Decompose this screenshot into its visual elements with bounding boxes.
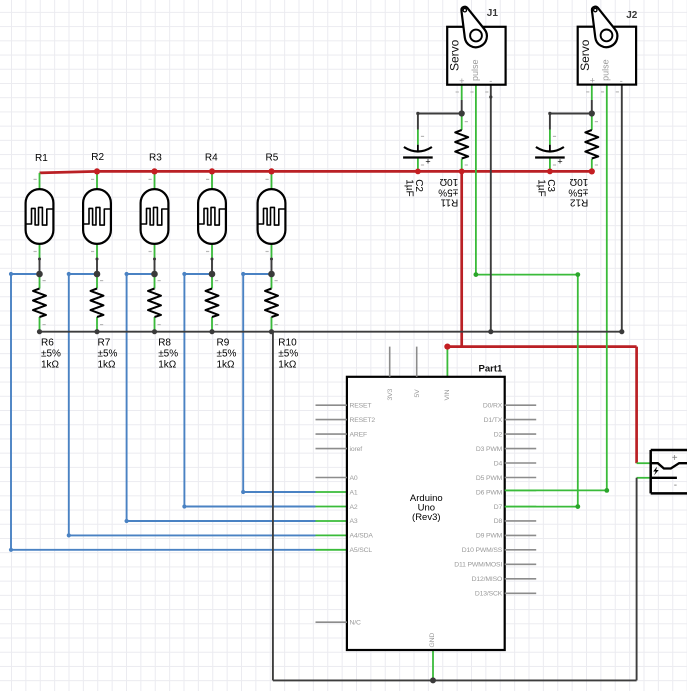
svg-text:VIN: VIN: [444, 389, 451, 400]
wire: red horizontal to battery column: [447, 345, 636, 348]
wire: red drop to battery plus: [635, 347, 638, 464]
capacitor C2: [403, 145, 433, 167]
resistor R6: [33, 289, 46, 318]
svg-text:A4/SDA: A4/SDA: [350, 533, 374, 540]
svg-text:AREF: AREF: [350, 431, 368, 438]
svg-text:R3: R3: [149, 153, 162, 164]
svg-text:R10±5%1kΩ: R10±5%1kΩ: [278, 338, 298, 371]
svg-text:D1/TX: D1/TX: [484, 417, 503, 424]
wire: green stubs resistor R7: [96, 274, 98, 332]
svg-text:R8±5%1kΩ: R8±5%1kΩ: [158, 338, 178, 371]
svg-text:D0/RX: D0/RX: [483, 403, 503, 410]
wire: C2 top stub: [417, 130, 419, 145]
wire: ground bus under resistors: [40, 331, 622, 333]
node red bus junctions: [94, 168, 595, 349]
svg-text:RESET2: RESET2: [350, 417, 376, 424]
wire: blue from R9 node to pin A2: [184, 274, 315, 507]
wire: servo J2 minus down to ground bus: [621, 85, 623, 332]
wire: black link LDR R5 to resistor R10: [271, 259, 273, 274]
wire: green stubs resistor R8: [154, 274, 156, 332]
svg-text:R5: R5: [266, 153, 279, 164]
svg-text:R6±5%1kΩ: R6±5%1kΩ: [41, 338, 61, 371]
svg-text:D6 PWM: D6 PWM: [476, 489, 503, 496]
svg-text:D9 PWM: D9 PWM: [476, 533, 503, 540]
wire: R12 bottom to red bus: [591, 159, 593, 172]
wire: red V+ bus along photoresistor tops R1..R5 to C2,R11,C3,R12: [40, 171, 637, 463]
wire: green stub R4 top: [211, 171, 213, 189]
svg-text:D12/MISO: D12/MISO: [472, 576, 503, 583]
wire: blue from R10 node to pin A1: [243, 274, 315, 492]
wire: battery minus lead: [637, 477, 651, 479]
wire: green pin stub A3: [316, 520, 347, 522]
wire: green GND stub to ground bus: [432, 650, 434, 680]
wire: battery minus riser: [636, 478, 638, 681]
svg-text:ioref: ioref: [350, 446, 363, 453]
svg-text:D3 PWM: D3 PWM: [476, 446, 503, 453]
resistor R11: [455, 130, 468, 159]
svg-text:R12±5%10Ω: R12±5%10Ω: [568, 176, 588, 207]
resistor R7: [91, 289, 104, 318]
resistor R10: [265, 289, 278, 318]
servo J1: [447, 7, 505, 93]
wire: blue from R7 node to pin A4/SDA: [69, 274, 316, 535]
photoresistor R3: [141, 189, 169, 244]
wire: black link LDR R1 to resistor R6: [39, 259, 41, 274]
wire: green stub R5 top: [271, 171, 273, 189]
svg-text:A2: A2: [350, 504, 358, 511]
svg-text:A3: A3: [350, 518, 358, 525]
wire: servo J2 plus pin down to node: [591, 85, 593, 130]
wire: ground bottom bus: [273, 679, 637, 681]
wire: green stubs resistor R9: [211, 274, 213, 332]
photoresistor R2: [83, 189, 111, 244]
wire: C3 bottom to red bus: [549, 158, 551, 172]
svg-text:Part1: Part1: [479, 363, 503, 374]
wire: black link LDR R4 to resistor R9: [211, 259, 213, 274]
wire: green pin stub A4/SDA: [316, 534, 347, 536]
wire: blue from R6 node to pin A5/SCL: [11, 274, 316, 550]
wire: black link LDR R2 to resistor R7: [96, 259, 98, 274]
svg-text:J2: J2: [626, 10, 638, 21]
wire: black bent lead node to C2 top: [418, 100, 462, 130]
wire: green pin stub A1: [316, 491, 347, 493]
wire: green stub R2 top: [96, 171, 98, 189]
battery J3 power connector: [651, 450, 687, 493]
wire: servo J1 pulse down with jog to D7: [476, 85, 578, 507]
svg-text:C21µF: C21µF: [404, 179, 424, 196]
arduino pin stubs top 3V3 5V: [390, 347, 417, 377]
wire: servo J1 minus down to ground bus: [490, 85, 492, 332]
arduino D6 D7 green pin stubs: [505, 490, 537, 506]
svg-text:GND: GND: [429, 633, 436, 648]
node green junctions: [474, 272, 610, 509]
wire: green stubs resistor R10: [271, 274, 273, 332]
svg-text:D11 PWM/MOSI: D11 PWM/MOSI: [454, 562, 502, 569]
capacitor C3: [535, 145, 565, 167]
wire: green stub R2 bottom: [96, 245, 98, 259]
svg-text:D8: D8: [494, 518, 503, 525]
wire: battery plus lead: [637, 462, 651, 464]
wire: green stub R5 bottom: [271, 245, 273, 259]
wire: green stub R1 bottom: [39, 245, 41, 259]
arduino pin stubs gray left: [316, 405, 347, 622]
wire: green stubs resistor R6: [39, 274, 41, 332]
arduino pin stubs gray right: [505, 405, 537, 593]
node black junctions LDR/resistor/blue: [36, 95, 624, 683]
photoresistor R4: [198, 189, 226, 244]
svg-text:3V3: 3V3: [387, 388, 394, 400]
wire: red drop from R11 node down: [460, 171, 463, 346]
svg-text:+: +: [672, 453, 678, 464]
svg-text:A0: A0: [350, 475, 358, 482]
svg-text:C31µF: C31µF: [536, 179, 556, 196]
wire: green stub R3 bottom: [154, 245, 156, 259]
svg-text:D5 PWM: D5 PWM: [476, 475, 503, 482]
wire: green stub R1 top: [39, 173, 41, 189]
resistor R8: [148, 289, 161, 318]
arduino Part1 box: [347, 377, 505, 650]
svg-text:R2: R2: [91, 152, 104, 163]
svg-text:D10 PWM/SS: D10 PWM/SS: [462, 547, 503, 554]
resistor R9: [206, 289, 219, 318]
svg-text:-: -: [674, 480, 677, 491]
wire: R11 bottom to red bus: [461, 159, 463, 172]
svg-text:R4: R4: [205, 153, 218, 164]
wire: green stub R4 bottom: [211, 245, 213, 259]
arduino left pin labels: [350, 402, 376, 626]
wire: ground drop at R10 column: [272, 332, 274, 681]
wire: servo J1 plus pin down to node: [461, 85, 463, 130]
svg-text:D2: D2: [494, 431, 503, 438]
svg-text:R9±5%1kΩ: R9±5%1kΩ: [217, 338, 237, 371]
wire: C3 top stub: [549, 130, 551, 145]
node blue bendpoints: [9, 272, 245, 552]
svg-text:D13/SCK: D13/SCK: [475, 591, 503, 598]
svg-text:N/C: N/C: [350, 620, 361, 627]
wire: servo J2 pulse down to D6 then left: [505, 85, 607, 491]
photoresistor R1: [26, 189, 54, 244]
wire: green stub R3 top: [154, 171, 156, 189]
wire: C2 bottom to red bus: [417, 158, 419, 172]
resistor R12: [585, 130, 598, 159]
svg-text:D7: D7: [494, 504, 503, 511]
svg-text:D4: D4: [494, 460, 503, 467]
photoresistor R5: [258, 189, 286, 244]
wire: green pin stub A2: [316, 506, 347, 508]
svg-text:A5/SCL: A5/SCL: [350, 547, 373, 554]
svg-text:RESET: RESET: [350, 402, 372, 409]
svg-text:5V: 5V: [414, 389, 421, 398]
wire: black link LDR R3 to resistor R8: [154, 259, 156, 274]
wire: blue from R8 node to pin A3: [127, 274, 316, 521]
svg-text:R11±5%10Ω: R11±5%10Ω: [438, 176, 458, 207]
tiny pin tick marks: [34, 121, 599, 325]
wire: green pin stub A5/SCL: [316, 549, 347, 551]
servo J2: [578, 7, 636, 93]
svg-text:A1: A1: [350, 489, 358, 496]
wire: black bent lead node to C3 top: [550, 100, 592, 130]
svg-text:R1: R1: [35, 153, 48, 164]
arduino top pin labels rotated: [387, 388, 451, 647]
wire: green VIN stub from red node: [446, 347, 448, 377]
arduino right pin labels: [454, 403, 503, 598]
svg-text:R7±5%1kΩ: R7±5%1kΩ: [98, 338, 118, 371]
svg-text:J1: J1: [487, 8, 499, 19]
